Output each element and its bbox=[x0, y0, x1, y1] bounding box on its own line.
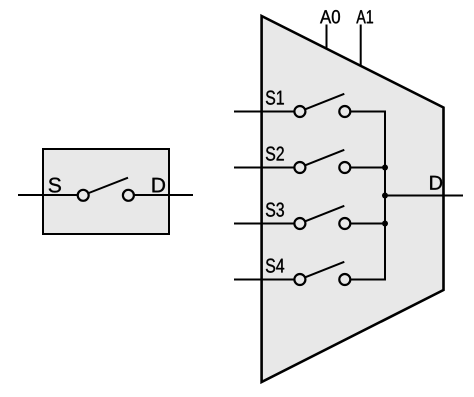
wire: right contact to D output bbox=[133, 194, 193, 196]
switch S3: lever bbox=[304, 206, 344, 222]
switch box body (single switch) bbox=[43, 149, 169, 234]
label D (mux output) bbox=[430, 176, 442, 190]
switch S3: left contact bbox=[294, 218, 305, 229]
junction node S3-bus bbox=[382, 221, 388, 227]
switch S1: left contact bbox=[294, 106, 305, 117]
switch S2: right contact bbox=[339, 162, 350, 173]
wire: output bus vertical bbox=[384, 111, 386, 281]
wire: A0 control line bbox=[326, 25, 328, 50]
switch S1: lever bbox=[304, 94, 344, 110]
wire: A1 control line bbox=[360, 25, 362, 67]
switch S1: right contact bbox=[339, 106, 350, 117]
switch S3: input wire bbox=[234, 223, 296, 225]
switch S4: lever bbox=[304, 262, 344, 278]
switch S2: left contact bbox=[294, 162, 305, 173]
switch S2: lever bbox=[304, 150, 344, 166]
wire: S3 right contact to bus bbox=[350, 223, 385, 225]
label A1 bbox=[356, 10, 373, 23]
label S1 bbox=[266, 91, 284, 105]
label A0 bbox=[320, 10, 340, 23]
switch S4: input wire bbox=[234, 279, 296, 281]
label D bbox=[153, 178, 165, 192]
label S2 bbox=[266, 147, 284, 161]
wire: S2 right contact to bus bbox=[350, 167, 385, 169]
switch S4: left contact bbox=[294, 274, 305, 285]
label S4 bbox=[266, 259, 284, 273]
junction node D-bus bbox=[382, 193, 388, 199]
wire: S input to left contact bbox=[18, 194, 79, 196]
wire: D output bbox=[385, 195, 463, 197]
multiplexer body (trapezoid) bbox=[262, 16, 444, 382]
wire: S1 right contact to bus bbox=[350, 111, 385, 113]
label S bbox=[49, 178, 61, 193]
switch S2: input wire bbox=[234, 167, 296, 169]
switch S1: input wire bbox=[234, 111, 296, 113]
wire: S4 right contact to bus bbox=[350, 279, 385, 281]
label S3 bbox=[266, 203, 284, 217]
contact circle right bbox=[123, 190, 134, 201]
junction node S2-bus bbox=[382, 165, 388, 171]
switch lever (open) bbox=[88, 178, 129, 194]
contact circle left bbox=[78, 190, 89, 201]
switch S3: right contact bbox=[339, 218, 350, 229]
switch S4: right contact bbox=[339, 274, 350, 285]
